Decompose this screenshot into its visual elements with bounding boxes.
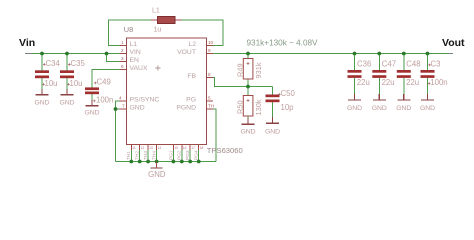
svg-text:130k: 130k <box>254 99 263 115</box>
ground R50 <box>240 118 255 135</box>
svg-text:6: 6 <box>121 64 124 69</box>
svg-text:Vin: Vin <box>19 37 35 49</box>
pin 1 L1 left <box>120 40 138 48</box>
pin PG3 bottom <box>185 145 195 164</box>
svg-text:10p: 10p <box>281 103 295 112</box>
wire C50 to ground <box>272 102 274 117</box>
wire C3 drop <box>427 54 429 95</box>
resistor R50 <box>236 96 264 117</box>
ground below IC bus <box>148 162 166 180</box>
svg-text:TH4: TH4 <box>152 151 158 160</box>
svg-text:GND: GND <box>240 129 255 136</box>
svg-text:1: 1 <box>121 40 124 45</box>
svg-text:14: 14 <box>158 146 162 150</box>
pin 5 PG right <box>186 96 213 104</box>
wire FB to divider <box>213 78 273 87</box>
wire grey start Vin <box>25 53 33 55</box>
svg-text:1u: 1u <box>154 27 162 34</box>
svg-text:931k: 931k <box>254 62 263 78</box>
svg-text:GND: GND <box>372 105 387 112</box>
inductor L1 <box>151 8 182 34</box>
svg-text:9: 9 <box>208 48 211 53</box>
ground C34 <box>34 89 49 107</box>
wire R50 to ground <box>247 116 249 118</box>
wire C34 drop <box>41 54 43 89</box>
wire C49 bottom <box>91 94 93 100</box>
svg-text:16: 16 <box>183 146 187 150</box>
svg-text:L2: L2 <box>188 41 196 48</box>
resistor R49 <box>236 59 264 80</box>
ground C36 <box>347 94 362 112</box>
svg-text:22u: 22u <box>357 78 370 87</box>
svg-text:C49: C49 <box>97 78 111 87</box>
svg-text:C35: C35 <box>71 59 86 68</box>
svg-text:C3: C3 <box>431 60 441 69</box>
capacitor C3 <box>421 60 448 88</box>
pin TH4 bottom <box>152 145 162 164</box>
wire grey end Vout <box>449 53 454 55</box>
ground C3 <box>420 94 435 112</box>
pin 10 L2 right <box>188 40 213 48</box>
pin 4 PS/SYNC left <box>119 96 159 104</box>
ground C48 <box>396 94 411 112</box>
capacitor C50 <box>266 89 296 112</box>
svg-text:PG1: PG1 <box>168 150 174 160</box>
ground C49 <box>84 100 99 117</box>
svg-text:7: 7 <box>122 104 125 109</box>
svg-text:VOUT: VOUT <box>177 49 196 56</box>
capacitor C49 <box>85 78 113 105</box>
wire VOUT rail <box>213 53 453 55</box>
pin 6 VAUX left <box>120 64 148 72</box>
svg-text:931k+130k ~ 4.08V: 931k+130k ~ 4.08V <box>247 39 319 48</box>
svg-text:12: 12 <box>141 146 145 150</box>
svg-text:EN: EN <box>130 57 140 64</box>
wire PS/SYNC tie to GND pin <box>116 101 121 109</box>
svg-text:100n: 100n <box>430 78 447 87</box>
svg-text:5: 5 <box>208 96 211 101</box>
node junction FB divider <box>246 85 250 89</box>
svg-text:R49: R49 <box>236 63 245 77</box>
svg-text:22u: 22u <box>406 78 419 87</box>
op-amp U8 IC body TPS63060 <box>124 25 243 155</box>
svg-text:FB: FB <box>187 73 196 80</box>
pin PG2 bottom <box>177 145 187 164</box>
wire GND pin down to bus <box>116 109 121 162</box>
svg-text:PG4: PG4 <box>194 150 200 160</box>
svg-text:C48: C48 <box>406 60 420 69</box>
svg-text:PG2: PG2 <box>177 150 183 160</box>
capacitor C35 <box>60 59 85 88</box>
wire EN tie to Vin rail <box>107 54 121 62</box>
capacitor C34 <box>35 59 60 88</box>
svg-text:10u: 10u <box>45 79 58 88</box>
svg-text:GND: GND <box>84 110 99 117</box>
pin 9 VOUT right <box>177 48 213 56</box>
capacitor C36 <box>348 60 372 88</box>
pin TH PGND right <box>176 104 214 112</box>
pin 8 FB right <box>187 72 213 80</box>
svg-text:VAUX: VAUX <box>130 65 148 72</box>
wire PGND down to bus <box>213 109 216 162</box>
node junction PS/GND <box>114 107 118 111</box>
svg-text:10u: 10u <box>70 79 83 88</box>
node junction R49 on rail <box>246 52 250 56</box>
svg-text:R50: R50 <box>236 100 245 114</box>
svg-text:4: 4 <box>119 96 122 101</box>
svg-text:10: 10 <box>208 40 214 45</box>
svg-text:L1: L1 <box>130 41 138 48</box>
svg-text:PG3: PG3 <box>185 150 191 160</box>
wire C35 drop <box>66 54 68 89</box>
pin PG1 bottom <box>168 145 178 164</box>
node junction C34 <box>40 52 44 56</box>
svg-text:GND: GND <box>59 100 74 107</box>
svg-text:PS/SYNC: PS/SYNC <box>130 97 160 104</box>
pin 3 EN left <box>120 56 140 64</box>
svg-text:22u: 22u <box>382 78 395 87</box>
svg-text:11: 11 <box>132 146 136 150</box>
svg-text:U8: U8 <box>124 25 133 34</box>
svg-text:GND: GND <box>265 129 280 136</box>
wire C36 drop <box>354 54 356 95</box>
ground C35 <box>59 89 74 107</box>
svg-text:8: 8 <box>208 72 211 77</box>
svg-text:PGND: PGND <box>176 105 196 112</box>
svg-text:GND: GND <box>347 105 362 112</box>
svg-text:GND: GND <box>130 105 145 112</box>
ground C47 <box>372 94 387 112</box>
wire VAUX to C49 <box>92 70 120 88</box>
svg-text:GND: GND <box>420 105 435 112</box>
pin TH2 bottom <box>135 145 145 164</box>
svg-text:TH3: TH3 <box>143 151 149 160</box>
svg-text:2: 2 <box>121 48 124 53</box>
svg-text:C34: C34 <box>46 59 61 68</box>
pin 7 GND left <box>120 104 145 112</box>
capacitor C47 <box>372 60 396 88</box>
node junction C36 <box>353 52 357 56</box>
svg-text:15: 15 <box>174 146 178 150</box>
wire Vin rail <box>25 53 120 55</box>
svg-text:TH1: TH1 <box>126 151 132 160</box>
svg-text:TH: TH <box>208 104 214 109</box>
wire R49 to R50 <box>247 79 249 96</box>
wire C47 drop <box>378 54 380 95</box>
node junction C47 <box>377 52 381 56</box>
wire C48 drop <box>403 54 405 95</box>
svg-text:C50: C50 <box>281 89 296 98</box>
svg-text:18: 18 <box>200 146 204 150</box>
svg-text:17: 17 <box>191 146 195 150</box>
pin PG4 bottom <box>194 145 204 164</box>
pin 2 VIN left <box>120 48 141 56</box>
wire R49 top to rail <box>247 54 249 59</box>
svg-text:C47: C47 <box>382 60 396 69</box>
svg-text:3: 3 <box>121 56 124 61</box>
wire C50 top <box>272 87 274 95</box>
svg-text:GND: GND <box>396 105 411 112</box>
wire bottom ground bus <box>116 161 217 163</box>
node junction C48 <box>402 52 406 56</box>
node junction C3 <box>426 52 430 56</box>
svg-text:13: 13 <box>149 146 153 150</box>
svg-text:Vout: Vout <box>442 37 465 49</box>
svg-text:100n: 100n <box>96 96 113 105</box>
svg-text:VIN: VIN <box>130 49 141 56</box>
svg-text:TPS63060: TPS63060 <box>207 146 243 155</box>
ground C50 <box>265 117 280 136</box>
node junction C35 <box>65 52 69 56</box>
node junction EN on rail <box>105 52 109 56</box>
svg-text:C36: C36 <box>357 60 371 69</box>
svg-text:TH2: TH2 <box>135 151 141 160</box>
svg-text:GND: GND <box>34 100 49 107</box>
svg-text:PG: PG <box>186 97 196 104</box>
pin TH3 bottom <box>143 145 153 164</box>
capacitor C48 <box>397 60 421 88</box>
svg-text:L1: L1 <box>152 8 160 15</box>
svg-text:GND: GND <box>148 170 166 179</box>
wire top inductor loop <box>109 20 224 46</box>
pin TH1 bottom <box>126 145 136 164</box>
